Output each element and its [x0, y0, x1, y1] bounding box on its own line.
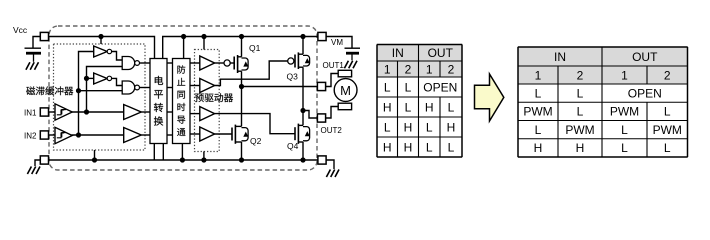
- node OUT2: [300, 108, 305, 113]
- wire to Q2 gate: [215, 133, 232, 135]
- svg-text:1: 1: [621, 68, 628, 82]
- wire buffer4 out: [141, 134, 150, 136]
- wire Vcc to terminal: [33, 37, 41, 48]
- node gnd-predriver junction: [201, 157, 206, 162]
- ground (left): [27, 167, 31, 175]
- wire Q3 source to OUT2 node: [302, 67, 304, 125]
- wire Q4 source to gnd rail: [302, 142, 304, 160]
- svg-text:H: H: [447, 120, 456, 134]
- capacitor C1: [25, 47, 42, 49]
- svg-text:L: L: [448, 100, 455, 114]
- svg-text:PWM: PWM: [523, 105, 552, 119]
- wire OUT2 branch: [303, 111, 318, 119]
- svg-text:2: 2: [448, 62, 455, 76]
- level shift block: [150, 59, 167, 144]
- svg-text:L: L: [405, 80, 412, 94]
- shoot-through prevention block: [173, 59, 191, 144]
- wire stub to interlock block: [183, 37, 185, 59]
- wire Vcc rail (left domain): [49, 37, 155, 59]
- svg-text:2: 2: [664, 68, 671, 82]
- wire Q3 drain to VM rail: [302, 37, 304, 55]
- svg-text:Q3: Q3: [287, 72, 299, 82]
- IC outer dashed boundary: [49, 26, 317, 170]
- terminal GND left: [40, 156, 48, 164]
- wire level shift to interlock 4: [167, 134, 173, 136]
- svg-text:IN2: IN2: [24, 132, 37, 141]
- wire IN2: [49, 134, 56, 136]
- motor brush bottom: [338, 103, 351, 110]
- wire interlock to pre-driver 2: [190, 85, 200, 87]
- svg-text:H: H: [404, 120, 413, 134]
- svg-text:H: H: [534, 141, 543, 155]
- pre-driver dotted box: [195, 50, 220, 152]
- terminal VM: [318, 32, 326, 40]
- capacitor C2: [345, 47, 361, 49]
- node IN1 bus: [84, 109, 89, 114]
- terminal GND right: [318, 156, 326, 164]
- transistor Q4 (NMOS low-side right): [294, 127, 296, 140]
- terminal OUT2: [317, 114, 325, 122]
- pre-driver buffer 3: [200, 107, 215, 121]
- wire inverter2 to nand2: [112, 78, 123, 85]
- svg-text:1: 1: [426, 62, 433, 76]
- svg-text:Vcc: Vcc: [13, 25, 28, 35]
- svg-text:L: L: [405, 100, 412, 114]
- wire stub pre-driver to gnd: [203, 152, 205, 161]
- svg-text:M: M: [340, 83, 351, 98]
- svg-text:L: L: [621, 123, 628, 137]
- svg-text:PWM: PWM: [653, 123, 682, 137]
- pre-driver buffer 1: [200, 56, 215, 70]
- wire level shift to interlock 1: [167, 62, 173, 64]
- inverter 1: [94, 46, 108, 57]
- node IN2 to nand2: [76, 88, 81, 93]
- wire IN1 to inverter2: [87, 77, 94, 79]
- wire to Q4 gate: [215, 114, 295, 134]
- svg-text:OUT: OUT: [632, 50, 658, 64]
- svg-text:Q2: Q2: [250, 136, 262, 146]
- motor M: [334, 79, 357, 102]
- node VM-predriver junction: [201, 34, 206, 39]
- svg-text:1: 1: [535, 68, 542, 82]
- svg-text:IN: IN: [392, 46, 404, 60]
- svg-text:H: H: [576, 141, 585, 155]
- wire interlock to pre-driver 1: [190, 62, 200, 64]
- wire nand2 out: [140, 87, 151, 89]
- schmitt buffer IN1: [55, 104, 72, 120]
- transistor Q3 (PMOS high-side right): [288, 58, 294, 64]
- truth table 1: [377, 45, 462, 158]
- wire IN2 bus vertical: [79, 52, 94, 136]
- svg-text:H: H: [383, 140, 392, 154]
- transistor Q2 (NMOS low-side left): [231, 128, 233, 141]
- wire VM rail (right domain): [163, 37, 318, 59]
- wire level shift left gnd stub: [153, 144, 155, 161]
- ground (Vcc bypass): [26, 62, 30, 70]
- svg-text:L: L: [448, 140, 455, 154]
- hysteresis buffer label: [26, 86, 35, 95]
- wire stub to pre-driver box: [203, 37, 205, 50]
- wire interlock to pre-driver 4: [190, 133, 200, 135]
- ground (VM bypass): [344, 61, 348, 69]
- wire stub interlock to gnd: [181, 144, 183, 161]
- wire stub to logic box: [100, 37, 102, 45]
- interlock block label: [177, 65, 185, 73]
- terminal Vcc: [40, 32, 48, 40]
- pre-driver buffer 4: [200, 127, 215, 141]
- wire stub logic box to gnd: [94, 150, 96, 160]
- svg-text:2: 2: [405, 62, 412, 76]
- wire ground rail: [49, 159, 319, 161]
- node VM-interlock junction: [181, 34, 186, 39]
- wire to left ground: [35, 160, 41, 166]
- svg-text:L: L: [577, 86, 584, 100]
- truth table 2: [518, 47, 688, 157]
- svg-text:Q4: Q4: [287, 141, 299, 151]
- wire to Q3 gate: [215, 61, 288, 86]
- svg-text:Q1: Q1: [249, 43, 261, 53]
- svg-text:L: L: [664, 141, 671, 155]
- svg-text:IN1: IN1: [24, 109, 37, 118]
- wire nand1 out: [140, 62, 151, 64]
- svg-text:OUT2: OUT2: [321, 126, 343, 135]
- node gnd-Q2 junction: [239, 157, 244, 162]
- svg-text:L: L: [535, 123, 542, 137]
- schmitt buffer IN2: [55, 127, 72, 143]
- svg-text:VM: VM: [331, 38, 343, 47]
- wire IN1 buffer out: [72, 111, 124, 113]
- level shift block label: [155, 76, 163, 85]
- buffer 3 (IN1 path): [124, 105, 142, 120]
- wire level shift to interlock 2: [167, 87, 173, 89]
- svg-text:IN: IN: [554, 50, 566, 64]
- node Vcc-logic junction: [98, 34, 103, 39]
- ground (right): [326, 170, 330, 178]
- wire Q1 source to OUT1 node: [241, 71, 243, 86]
- node IN2 bus: [76, 132, 81, 137]
- wire level shift right gnd stub: [162, 144, 164, 161]
- wire VM to capacitor: [326, 37, 352, 48]
- wire OUT1: [242, 86, 318, 88]
- svg-text:L: L: [384, 80, 391, 94]
- svg-text:L: L: [664, 105, 671, 119]
- motor brush top: [338, 70, 351, 77]
- logic section dotted box: [54, 44, 146, 150]
- wire inverter1 to nand1: [112, 52, 123, 61]
- svg-text:L: L: [621, 141, 628, 155]
- svg-text:L: L: [535, 86, 542, 100]
- svg-text:PWM: PWM: [565, 123, 594, 137]
- inverter 2: [94, 73, 108, 84]
- svg-text:2: 2: [577, 68, 584, 82]
- wire motor to OUT2: [326, 107, 339, 119]
- wire OUT1 to motor: [326, 74, 339, 87]
- wire to Q1 gate: [215, 62, 224, 64]
- svg-text:1: 1: [384, 62, 391, 76]
- pre-driver label: [195, 94, 204, 102]
- wire interlock to pre-driver 3: [190, 113, 200, 115]
- node gnd-interlock junction: [180, 157, 185, 162]
- nand gate 2: [122, 81, 135, 94]
- nand gate 1: [122, 57, 135, 70]
- svg-text:L: L: [384, 120, 391, 134]
- block arrow: [475, 74, 504, 121]
- svg-text:H: H: [425, 100, 434, 114]
- pre-driver buffer 2: [200, 79, 215, 93]
- wire Q1 drain to VM rail: [241, 37, 243, 57]
- node IN1 to inverter2: [84, 76, 89, 81]
- node VM-Q1 junction: [239, 34, 244, 39]
- node gnd-logic junction: [92, 157, 97, 162]
- svg-text:H: H: [404, 140, 413, 154]
- wire IN1 bus vertical: [87, 67, 123, 113]
- node gnd-Q4 junction: [300, 157, 305, 162]
- node OUT1: [239, 84, 244, 89]
- svg-text:OUT: OUT: [428, 46, 454, 60]
- wire to right ground: [326, 160, 334, 169]
- svg-text:L: L: [426, 120, 433, 134]
- wire buffer3 out: [141, 111, 150, 113]
- wire level shift to interlock 3: [167, 111, 173, 113]
- wire OUT1 node to Q2 drain: [241, 87, 243, 127]
- svg-text:OPEN: OPEN: [628, 86, 662, 100]
- terminal IN2: [40, 131, 48, 139]
- svg-text:OPEN: OPEN: [423, 80, 457, 94]
- svg-text:PWM: PWM: [610, 105, 639, 119]
- terminal OUT1: [317, 82, 325, 90]
- wire IN2 to nand2: [79, 90, 123, 92]
- svg-text:L: L: [426, 140, 433, 154]
- wire Q2 source to gnd rail: [241, 142, 243, 160]
- terminal IN1: [40, 108, 48, 116]
- svg-text:OUT1: OUT1: [323, 61, 345, 70]
- svg-text:L: L: [577, 105, 584, 119]
- svg-text:H: H: [383, 100, 392, 114]
- transistor Q1 (PMOS high-side left): [224, 60, 230, 66]
- wire IN1: [49, 111, 56, 113]
- buffer 4 (IN2 path): [124, 128, 142, 143]
- node VM-Q3 junction: [300, 34, 305, 39]
- wire IN2 buffer out: [72, 134, 124, 136]
